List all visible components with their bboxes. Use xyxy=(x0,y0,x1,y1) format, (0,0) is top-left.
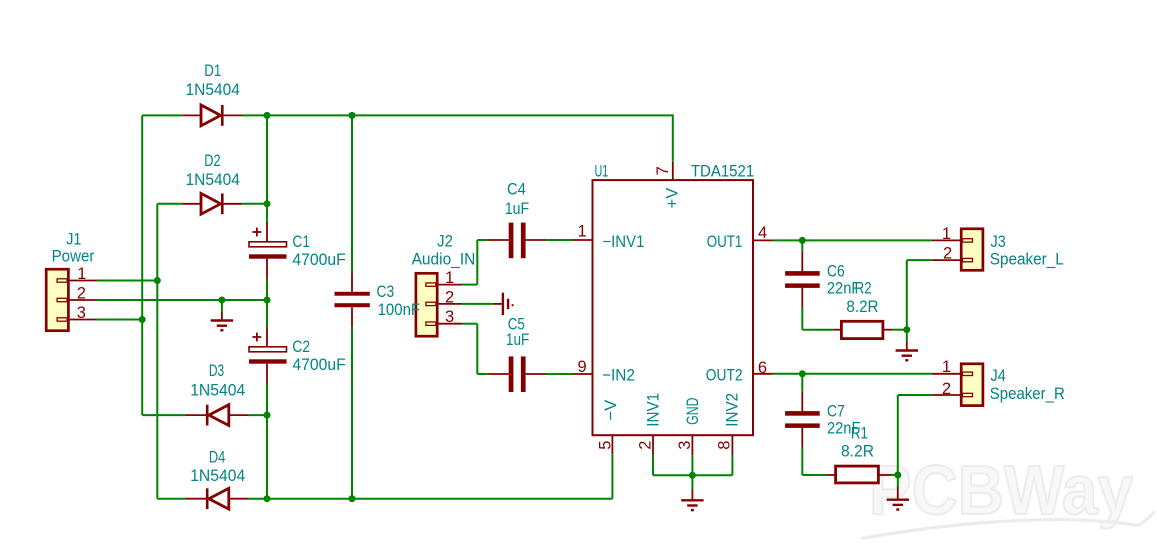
wire +V top rail left segment xyxy=(142,114,182,116)
svg-text:2: 2 xyxy=(77,284,86,302)
svg-text:OUT2: OUT2 xyxy=(706,367,743,385)
svg-text:PCBWay: PCBWay xyxy=(869,451,1133,529)
svg-text:R1: R1 xyxy=(851,425,868,443)
wire C6 top connection xyxy=(801,240,803,251)
svg-text:1N5404: 1N5404 xyxy=(186,171,240,189)
resistor R1 xyxy=(827,466,891,483)
svg-text:1: 1 xyxy=(445,269,454,287)
wire R1 row left xyxy=(802,474,827,476)
svg-text:8.2R: 8.2R xyxy=(841,443,874,461)
junction R1-gnd xyxy=(894,472,901,479)
svg-text:1: 1 xyxy=(578,223,587,241)
svg-text:C7: C7 xyxy=(827,403,845,421)
wire U1 pin2 down xyxy=(652,455,654,475)
svg-text:4: 4 xyxy=(758,224,767,242)
svg-text:2: 2 xyxy=(943,245,952,263)
svg-text:1N5404: 1N5404 xyxy=(186,81,240,99)
svg-text:+V: +V xyxy=(663,188,681,209)
svg-text:100nF: 100nF xyxy=(378,301,421,319)
junction gnd tap xyxy=(218,297,225,304)
svg-text:J4: J4 xyxy=(991,367,1006,385)
svg-text:6: 6 xyxy=(758,359,767,377)
connector J1 Power body xyxy=(46,269,68,331)
wire +V top rail right segment (D1 cathode to pin7 drop) xyxy=(242,114,673,116)
capacitor C1 xyxy=(249,222,287,279)
svg-text:Power: Power xyxy=(52,248,95,266)
junction D3-C2 xyxy=(264,412,271,419)
J3 pin 2 stub xyxy=(932,259,961,261)
svg-text:C1: C1 xyxy=(292,233,310,251)
svg-text:D3: D3 xyxy=(209,362,224,380)
diode D2 xyxy=(182,193,242,214)
J2 pin 1 stub xyxy=(437,284,462,286)
svg-text:C2: C2 xyxy=(292,338,310,356)
J3 pin 1 stub xyxy=(932,239,961,241)
junction D4-C rail xyxy=(264,495,271,502)
svg-text:J3: J3 xyxy=(991,233,1006,251)
connector J2 Audio_IN body xyxy=(416,273,437,336)
svg-text:1uF: 1uF xyxy=(506,331,529,349)
svg-text:C3: C3 xyxy=(377,283,395,301)
junction J1.1-railB xyxy=(154,277,161,284)
svg-text:D2: D2 xyxy=(204,152,220,170)
wire D4 row left xyxy=(157,498,185,500)
J1 pin 3 stub xyxy=(68,319,97,321)
junction D1-C rail xyxy=(264,112,271,119)
wire J1 pin2 row to C1/C2 midpoint xyxy=(97,299,267,301)
svg-text:2: 2 xyxy=(942,380,951,398)
svg-text:4700uF: 4700uF xyxy=(292,356,345,374)
capacitor C3 xyxy=(335,272,370,326)
wire J4 pin2 down to R1 junction xyxy=(898,394,932,396)
wire J2 pin2 to ground xyxy=(462,303,493,305)
svg-text:4700uF: 4700uF xyxy=(292,251,345,269)
wire D4 row right to U1 pin5 xyxy=(249,498,613,500)
wire U1 pin6 OUT2 to J4 pin1 xyxy=(773,373,932,375)
J2 pin 2 stub xyxy=(437,303,462,305)
wire R1 to junction xyxy=(891,474,898,476)
U1 pin 5 xyxy=(611,435,613,454)
svg-text:INV2: INV2 xyxy=(724,393,742,427)
resistor R2 xyxy=(833,321,892,338)
U1 pin 8 xyxy=(731,435,733,455)
svg-text:TDA1521: TDA1521 xyxy=(691,163,754,181)
svg-text:1: 1 xyxy=(942,225,951,243)
svg-text:C4: C4 xyxy=(507,181,526,199)
ground below U1 pin3 xyxy=(681,475,703,510)
junction OUT2-C7 xyxy=(799,370,806,377)
wire J3 pin2 to R2 junction xyxy=(907,259,932,261)
diode D1 xyxy=(182,105,242,126)
svg-text:3: 3 xyxy=(445,308,454,326)
svg-text:7: 7 xyxy=(654,166,672,175)
J1 pin 1 stub xyxy=(68,280,97,282)
svg-text:5: 5 xyxy=(597,441,615,450)
svg-text:−INV1: −INV1 xyxy=(602,233,644,251)
svg-text:1N5404: 1N5404 xyxy=(190,382,245,400)
U1 pin 2 xyxy=(652,435,654,455)
svg-text:U1: U1 xyxy=(595,163,609,181)
U1 pin 7 (+V) xyxy=(672,162,674,180)
wire D2 cathode to C1 junction xyxy=(242,203,267,205)
wire U1 pin5 down xyxy=(611,454,613,499)
wire U1 pin8 down xyxy=(731,455,733,475)
J1 pin 2 stub xyxy=(68,299,97,301)
wire D3 anode to center rail xyxy=(249,414,267,416)
wire C6 bottom to R2 row xyxy=(801,308,803,330)
diode D3 xyxy=(186,405,249,426)
svg-text:3: 3 xyxy=(77,304,86,322)
junction J1.3-railA xyxy=(139,316,146,323)
wire C4 to U1 pin1 xyxy=(546,239,573,241)
svg-text:1N5404: 1N5404 xyxy=(190,467,245,485)
op-amp U1 TDA1521 body xyxy=(593,180,754,435)
capacitor C4 xyxy=(488,223,546,259)
svg-text:8.2R: 8.2R xyxy=(846,298,878,316)
wire center rail C segments xyxy=(266,115,268,222)
wire U1 pin4 OUT1 to J3 pin1 xyxy=(773,239,932,241)
wire R2 to junction xyxy=(892,329,906,331)
svg-text:−V: −V xyxy=(602,400,620,421)
wire C7 top connection xyxy=(801,374,803,392)
svg-text:8: 8 xyxy=(716,441,734,450)
wire J1 pin1 to rail B xyxy=(97,280,157,282)
wire rail B vertical (J1.1 to D2/D4) xyxy=(156,204,158,499)
J2 pin 3 stub xyxy=(437,323,462,325)
svg-text:OUT1: OUT1 xyxy=(707,233,743,251)
svg-text:GND: GND xyxy=(684,397,702,424)
wire C3 rail segments xyxy=(351,115,353,272)
svg-text:J1: J1 xyxy=(66,230,81,248)
J4 pin 2 stub xyxy=(932,394,961,396)
wire J2 pin3 to C5 xyxy=(462,323,477,325)
svg-text:D1: D1 xyxy=(204,62,221,80)
U1 pin 4 xyxy=(753,239,773,241)
svg-text:1: 1 xyxy=(77,265,86,283)
ground at J2 pin2 (rotated right) xyxy=(493,293,513,315)
junction OUT1-C6 xyxy=(799,237,806,244)
wire J1 pin3 to rail A xyxy=(97,319,142,321)
svg-text:−IN2: −IN2 xyxy=(602,367,635,385)
U1 pin 1 xyxy=(573,239,593,241)
junction R2-gnd xyxy=(903,326,910,333)
junction U1 gnd bus xyxy=(689,472,696,479)
wire pin7 vertical drop xyxy=(672,114,674,161)
svg-text:1: 1 xyxy=(942,358,951,376)
capacitor C5 xyxy=(488,356,546,392)
capacitor C2 xyxy=(249,327,287,384)
wire C7 bottom to R1 row xyxy=(801,448,803,476)
svg-text:INV1: INV1 xyxy=(644,393,662,427)
svg-text:3: 3 xyxy=(676,441,694,450)
svg-text:2: 2 xyxy=(445,288,454,306)
junction C3-D4 rail xyxy=(349,495,356,502)
wire R2 row left xyxy=(802,329,833,331)
svg-text:1uF: 1uF xyxy=(505,200,529,218)
wire D2 row xyxy=(157,203,182,205)
junction D2-C1 xyxy=(264,200,271,207)
ground at J1 pin2 net xyxy=(211,300,233,330)
wire left rail A vertical (J1.3 to D1/D3) xyxy=(141,115,143,415)
capacitor C7 xyxy=(785,392,820,448)
ground below R2 xyxy=(896,330,918,361)
svg-text:Speaker_L: Speaker_L xyxy=(990,251,1064,269)
svg-text:Speaker_R: Speaker_R xyxy=(990,385,1065,403)
svg-text:C6: C6 xyxy=(827,263,845,281)
diode D4 xyxy=(186,488,249,509)
svg-text:J2: J2 xyxy=(437,232,453,250)
U1 pin 6 xyxy=(753,373,773,375)
wire U1 bottom gnd bus xyxy=(653,474,732,476)
wire J2 pin1 to C4 xyxy=(462,284,477,286)
capacitor C6 xyxy=(785,252,820,308)
wire C5 to U1 pin9 xyxy=(546,373,573,375)
J4 pin 1 stub xyxy=(932,373,961,375)
wire U1 pin3 down xyxy=(691,455,693,475)
ground below R1 xyxy=(887,475,909,510)
svg-text:D4: D4 xyxy=(209,448,225,466)
U1 pin 9 xyxy=(573,373,593,375)
junction D1-C3 rail xyxy=(349,112,356,119)
svg-text:R2: R2 xyxy=(855,280,872,298)
connector J4 Speaker_R body xyxy=(961,364,983,406)
wire D3 row left xyxy=(142,414,185,416)
U1 pin 3 xyxy=(691,435,693,455)
svg-text:9: 9 xyxy=(578,358,587,376)
junction C1-C2 midpoint xyxy=(264,297,271,304)
svg-text:2: 2 xyxy=(636,441,654,450)
watermark PCBWay logo xyxy=(861,451,1155,539)
connector J3 Speaker_L body xyxy=(961,229,983,270)
svg-text:Audio_IN: Audio_IN xyxy=(412,250,476,268)
